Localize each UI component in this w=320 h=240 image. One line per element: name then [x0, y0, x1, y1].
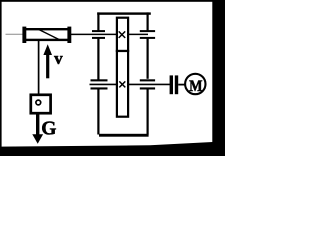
motor shaft stub [178, 84, 185, 86]
bearing shaft I right [140, 30, 155, 39]
gearbox housing [97, 12, 151, 136]
rope [38, 41, 40, 95]
bearing shaft II left [91, 79, 108, 89]
hook ring [36, 100, 41, 105]
motor M [185, 74, 205, 94]
bearing shaft II right [140, 79, 155, 89]
hub cross gear Z2 [119, 81, 125, 87]
drum (rope winch) [22, 27, 71, 43]
bearing shaft I left [92, 30, 105, 39]
velocity arrow v [43, 44, 52, 78]
shaft I (drum/output shaft) [71, 33, 148, 35]
shaft II (input shaft from motor) [90, 83, 171, 85]
coupling [170, 75, 179, 94]
gravity arrow G [32, 114, 43, 144]
hub cross gear Z1 [119, 31, 126, 38]
gear Z2 (large gear on shaft II) [117, 51, 128, 117]
svg-text:G: G [41, 119, 56, 140]
drum axis center line [6, 33, 24, 35]
weight block [31, 95, 51, 113]
gear Z1 (gear on shaft I) [117, 18, 128, 51]
svg-text:M: M [189, 78, 202, 95]
svg-text:v: v [54, 49, 63, 68]
